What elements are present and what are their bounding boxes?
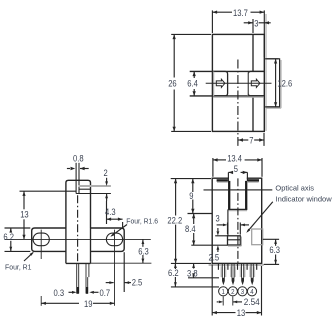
- svg-text:6.3: 6.3: [138, 246, 149, 256]
- side view slot right thick wall: [245, 181, 247, 210]
- svg-text:4: 4: [250, 289, 253, 296]
- svg-text:26: 26: [168, 79, 177, 89]
- svg-text:12.6: 12.6: [277, 78, 292, 88]
- side view slot floor: [228, 208, 247, 210]
- top view right flange: [264, 59, 279, 107]
- dimension 5: [228, 171, 232, 173]
- front view lead 2: [85, 263, 87, 293]
- terminal 2 number circle: [228, 287, 237, 296]
- dimension 8.4: [193, 214, 195, 225]
- dimension 2 (front): [106, 178, 108, 181]
- svg-text:9: 9: [189, 191, 193, 201]
- svg-text:7: 7: [249, 136, 253, 146]
- front view body bottom: [66, 262, 91, 264]
- svg-text:22.2: 22.2: [167, 215, 182, 225]
- side view left thick bar: [217, 179, 228, 181]
- svg-text:2.54: 2.54: [244, 297, 260, 307]
- front view left ear: [32, 228, 66, 251]
- side view optical axis leader: [262, 189, 273, 191]
- front view window line right of slit: [79, 188, 90, 190]
- top view strip upper edge: [190, 70, 265, 72]
- svg-text:0.7: 0.7: [100, 288, 111, 298]
- top view body outline: [212, 34, 264, 131]
- top view tower wall line (3 dim ref), above strip: [252, 34, 254, 71]
- side view right thick bar: [248, 179, 259, 181]
- top view receiver box: [248, 71, 264, 95]
- side view body outline: [212, 178, 262, 263]
- svg-text:2.5: 2.5: [132, 277, 143, 287]
- svg-text:3: 3: [241, 289, 244, 296]
- side view gray shadow under left bar: [217, 181, 228, 183]
- top view gray shadow right of flange: [280, 60, 282, 108]
- svg-text:2: 2: [231, 289, 234, 296]
- top view optical axis line: [206, 82, 272, 84]
- side view slot right outer line: [246, 172, 248, 181]
- dimension 22.2: [171, 178, 211, 180]
- dimension 9: [192, 179, 194, 192]
- top view center line (dash-dot): [237, 60, 239, 146]
- top view gray shadow left of receiver box: [247, 72, 249, 96]
- side view body bottom gray shadow: [209, 264, 264, 266]
- front view center column sides: [65, 228, 67, 263]
- svg-text:13: 13: [20, 210, 29, 220]
- side view slot gap (white over top edge): [229, 177, 247, 180]
- front view lead 2 dark tip: [86, 287, 88, 294]
- dimension 26: [171, 33, 211, 35]
- dimension 13.7: [211, 10, 213, 33]
- terminal 1 tip: [222, 278, 225, 286]
- dimension 13 (side bottom): [211, 265, 213, 316]
- front view lead 1: [76, 263, 78, 293]
- terminal 4 number circle: [247, 287, 256, 296]
- svg-text:1: 1: [222, 289, 225, 296]
- terminal 4 lead: [249, 266, 251, 277]
- terminal 1 number circle: [219, 287, 228, 296]
- dimension 6.2 (side): [171, 286, 219, 288]
- front view left hole vertical centerline: [40, 230, 42, 259]
- top view gray shadow inside left edge: [213, 72, 215, 96]
- front view lead 1 dark tip: [77, 287, 79, 294]
- dimension 3 (side): [227, 223, 229, 235]
- front view slit right line: [78, 163, 80, 194]
- side view gray box: [252, 229, 263, 245]
- dimension 0.8: [67, 168, 70, 170]
- svg-text:4.3: 4.3: [105, 207, 116, 217]
- side view gray shadow under slot floor: [229, 210, 247, 212]
- front view right hole vertical centerline: [114, 230, 116, 306]
- svg-text:6.4: 6.4: [187, 79, 198, 89]
- svg-text:Indicator window: Indicator window: [276, 194, 333, 203]
- top view strip lower edge: [190, 95, 265, 97]
- front view optical axis line left (13 dim ref): [20, 190, 77, 192]
- front view left oblong hole: [33, 233, 49, 246]
- front view right oblong hole: [106, 233, 122, 246]
- svg-text:6.3: 6.3: [269, 245, 280, 255]
- top view left block arrow: [216, 79, 225, 87]
- svg-text:3: 3: [254, 18, 258, 28]
- side view vertical from floor to window: [227, 209, 229, 235]
- terminal 2 lead: [230, 266, 232, 277]
- terminal 4 tip: [251, 278, 254, 286]
- dimension 2.54: [222, 297, 224, 306]
- svg-text:Four, R1.6: Four, R1.6: [126, 217, 158, 226]
- terminal 2 tip: [232, 278, 235, 286]
- dimension 13 (front): [23, 191, 25, 209]
- side view gray shadow under right bar: [248, 181, 259, 183]
- svg-text:3: 3: [216, 214, 220, 224]
- svg-text:13.7: 13.7: [233, 8, 248, 18]
- dimension 6.2 (front): [5, 227, 31, 229]
- side view center line: [237, 178, 239, 263]
- side view slot left outer line: [227, 172, 229, 181]
- front view slit left line: [75, 163, 77, 194]
- side view indicator window gray shadow: [240, 237, 242, 247]
- dimension 19: [41, 302, 79, 304]
- side view line below floor left ext: [188, 213, 213, 215]
- dimension 4.3: [106, 201, 108, 224]
- svg-text:0.8: 0.8: [73, 154, 84, 164]
- svg-text:3.8: 3.8: [187, 268, 198, 278]
- dimension 3 (top view): [252, 19, 254, 33]
- svg-text:Four, R1: Four, R1: [5, 263, 32, 272]
- svg-text:13.4: 13.4: [227, 154, 242, 164]
- dimension 13.4: [212, 158, 214, 177]
- svg-text:13: 13: [237, 308, 246, 318]
- front view center line below slit: [77, 195, 79, 263]
- side view indicator window box: [228, 236, 241, 245]
- dimension 3.8: [188, 277, 219, 279]
- top view gray shadow below flange: [266, 107, 281, 109]
- front view right ear: [91, 228, 125, 251]
- top view gray shadow right of body edge: [265, 14, 267, 131]
- top view emitter box: [212, 71, 227, 95]
- svg-text:19: 19: [84, 299, 93, 309]
- side view optical axis through body: [204, 189, 229, 191]
- dimension 7: [263, 133, 265, 146]
- front view tower outline: [66, 180, 91, 228]
- svg-text:5: 5: [234, 164, 238, 174]
- front view optical axis gray line: [79, 185, 111, 187]
- svg-text:Optical axis: Optical axis: [275, 184, 314, 193]
- top view gray shadow below strip: [213, 96, 264, 98]
- terminal 3 lead: [240, 266, 242, 277]
- side view slot left thick wall: [228, 181, 230, 210]
- dimension 2.5 (front): [123, 252, 125, 292]
- svg-text:0.3: 0.3: [54, 288, 65, 298]
- terminal 3 number circle: [238, 287, 247, 296]
- terminal 1 lead: [220, 266, 222, 277]
- svg-text:2.5: 2.5: [209, 253, 220, 263]
- dimension 0.7: [89, 291, 94, 294]
- side view indicator window inner line: [228, 239, 241, 241]
- terminal 3 tip: [241, 278, 244, 286]
- svg-text:8.4: 8.4: [185, 224, 196, 234]
- top view tower wall line below strip: [252, 96, 254, 131]
- front view window bottom line (2 dim ref): [76, 193, 111, 195]
- svg-text:2: 2: [104, 168, 108, 178]
- dimension 6.4: [193, 71, 195, 78]
- dimension 6.3 (front): [91, 262, 152, 264]
- svg-text:6.2: 6.2: [168, 268, 179, 278]
- side view terminal block partitions: [217, 263, 219, 269]
- svg-text:6.2: 6.2: [3, 232, 14, 242]
- top view right block arrow: [251, 79, 260, 87]
- front view hole horizontal centerline: [5, 238, 151, 240]
- dimension 6.3 (side): [263, 238, 279, 240]
- dimension 12.6: [266, 58, 279, 60]
- dimension 2.5 (side): [215, 235, 227, 237]
